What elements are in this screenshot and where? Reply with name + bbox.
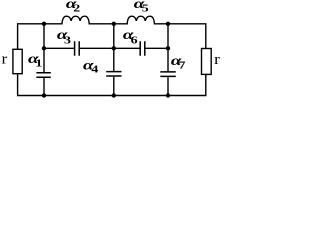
svg-text:r: r [2, 52, 8, 68]
svg-text:r: r [214, 52, 220, 68]
svg-text:2: 2 [73, 2, 80, 14]
svg-text:7: 7 [179, 59, 186, 71]
svg-text:6: 6 [131, 34, 138, 46]
svg-text:5: 5 [142, 2, 149, 14]
svg-text:1: 1 [35, 57, 42, 69]
svg-text:3: 3 [64, 34, 71, 46]
svg-text:4: 4 [91, 63, 98, 75]
